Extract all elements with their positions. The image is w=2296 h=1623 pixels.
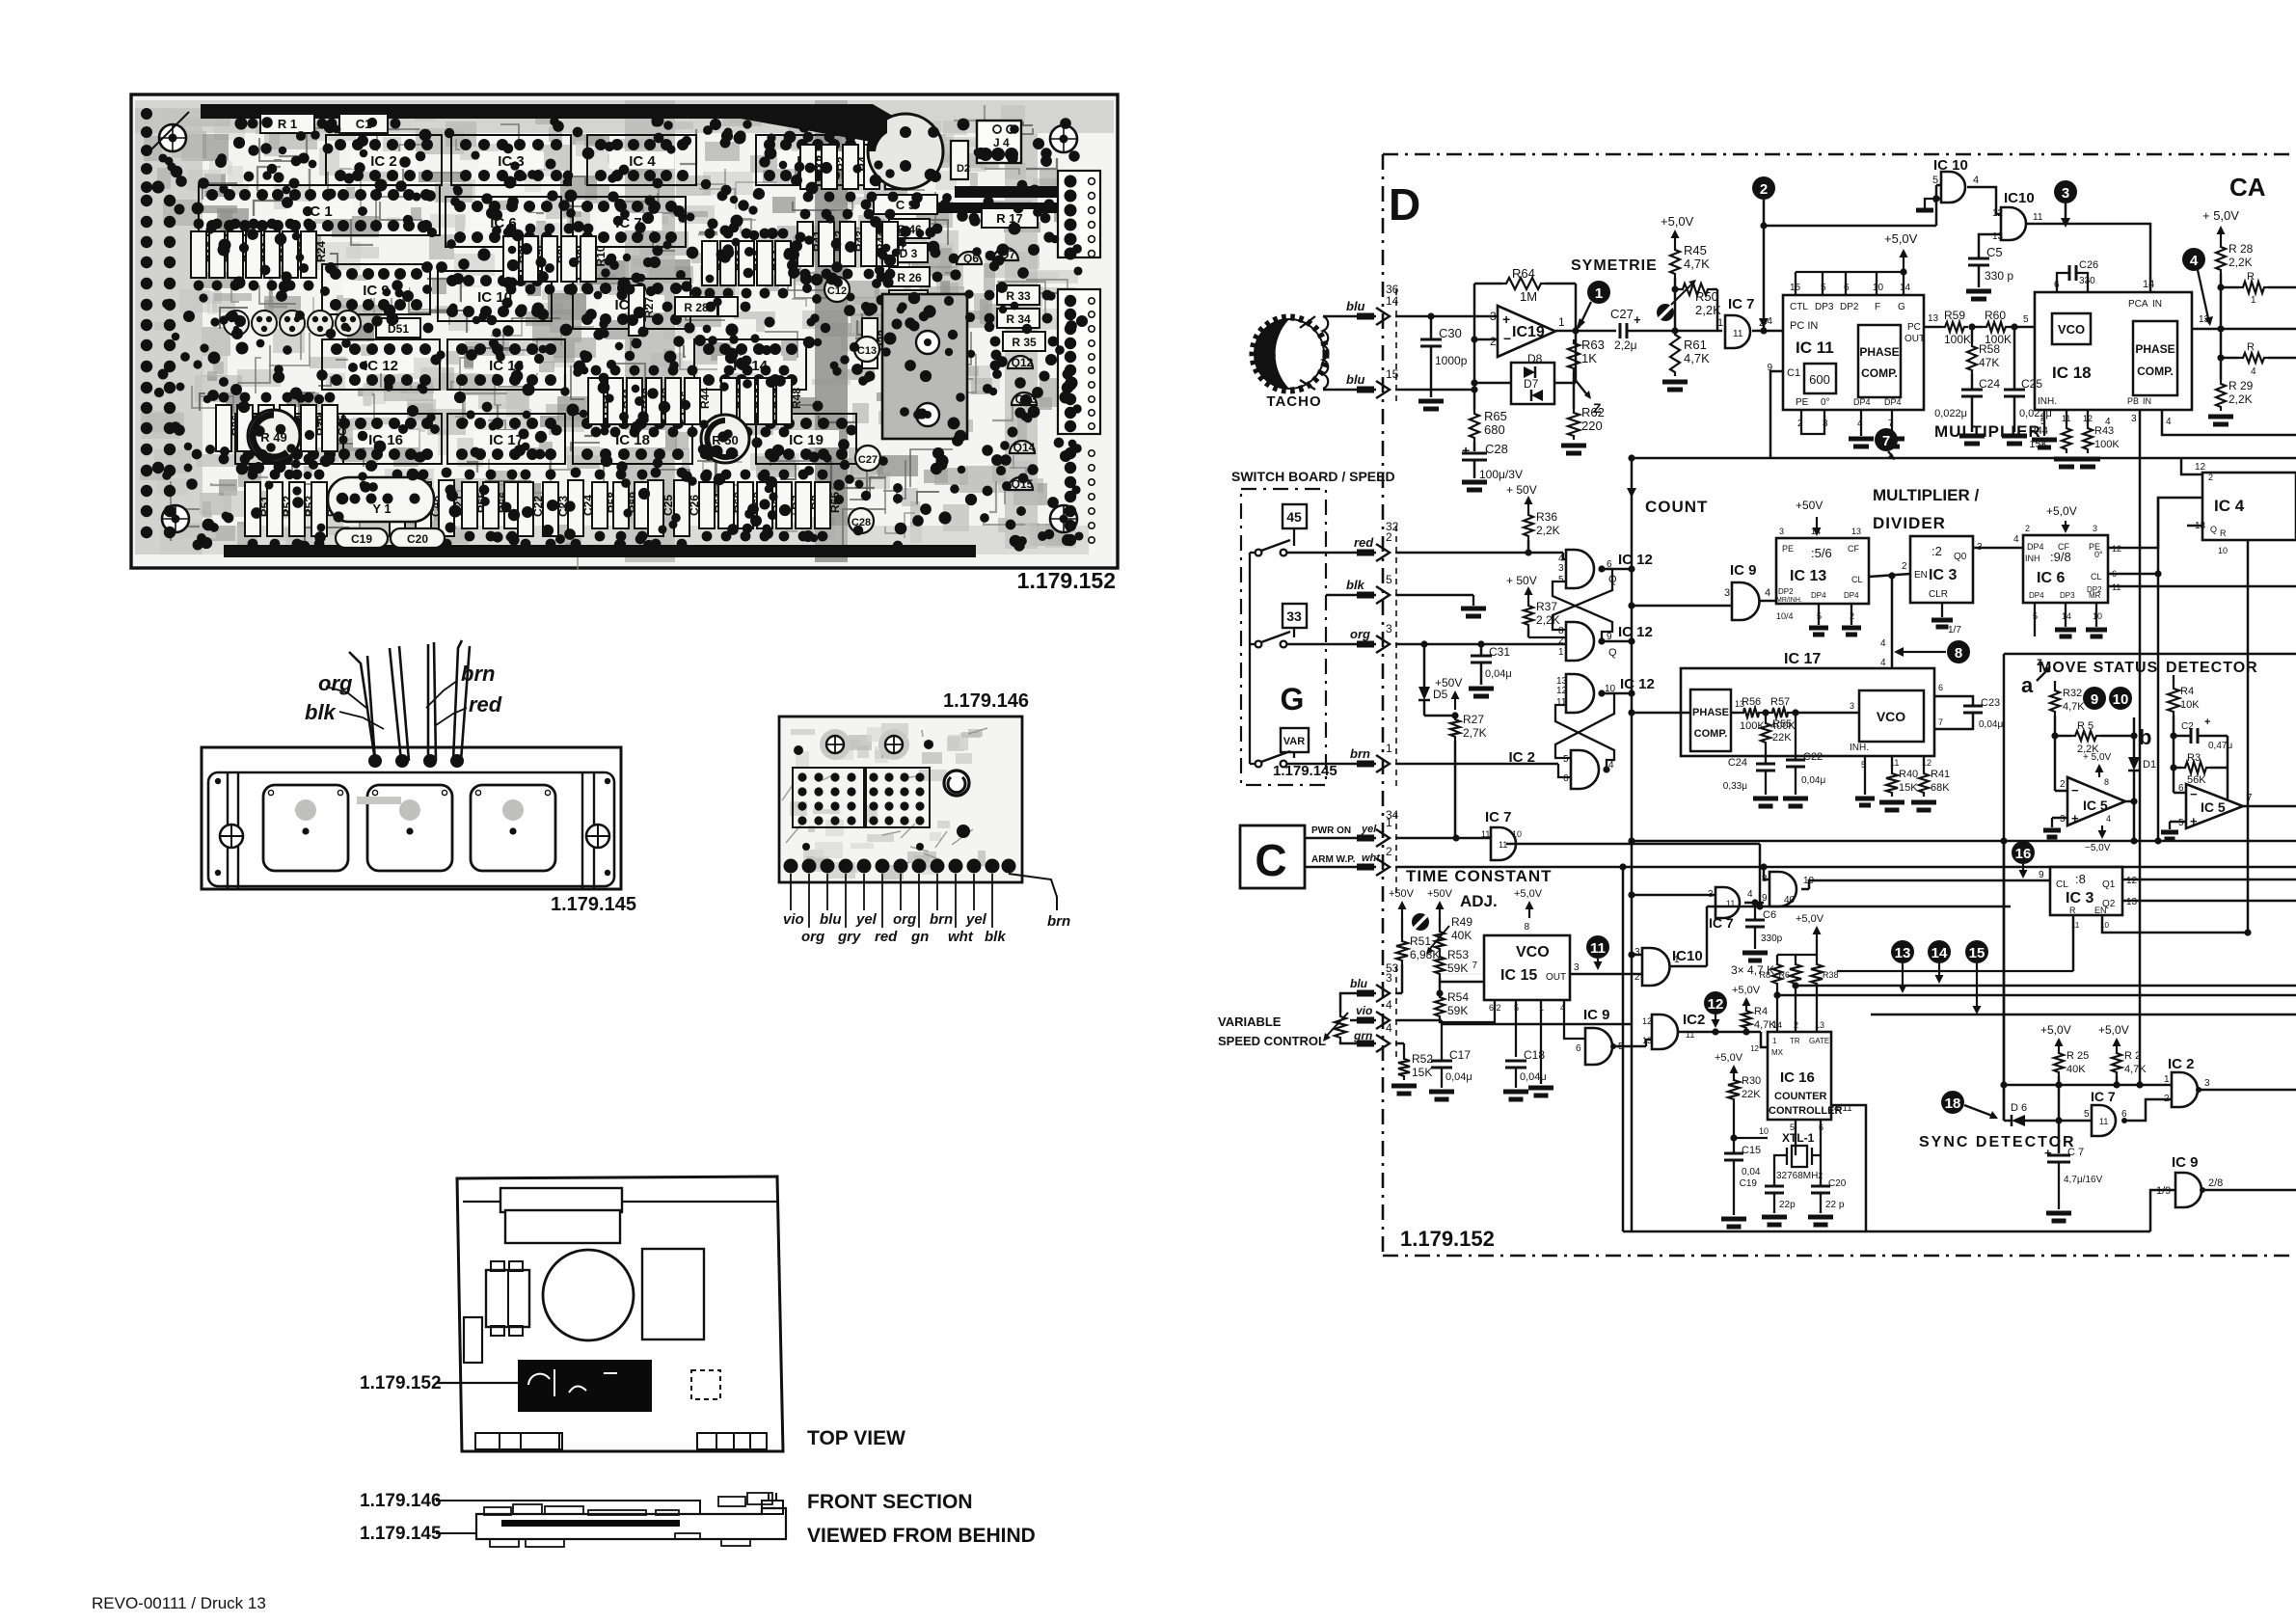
wire blk	[991, 874, 993, 928]
wire into IC17 left	[1632, 712, 1690, 715]
svg-text:600: 600	[1809, 372, 1830, 387]
svg-text:2: 2	[1558, 636, 1564, 646]
front section viewed from behind	[360, 1491, 1036, 1547]
component R51	[245, 482, 260, 536]
svg-text:+50V: +50V	[1427, 888, 1453, 900]
svg-text:R 35: R 35	[1012, 336, 1037, 349]
trimmer mark	[1657, 304, 1674, 321]
svg-text:R6: R6	[1778, 970, 1790, 980]
svg-text:DP3: DP3	[1815, 302, 1834, 312]
svg-text:5: 5	[2178, 818, 2184, 828]
component C23	[543, 482, 558, 536]
svg-text:2: 2	[1760, 181, 1768, 198]
svg-text:C5: C5	[1986, 245, 2003, 259]
capacitor C27	[1619, 323, 1622, 338]
R56 100K	[1731, 712, 1740, 715]
component R44	[685, 378, 700, 424]
svg-text:blk: blk	[1346, 578, 1365, 592]
resistor R65 680	[1473, 390, 1476, 410]
IC socket IC 9	[322, 264, 430, 314]
svg-text:PC IN: PC IN	[1790, 320, 1818, 332]
svg-text:VARIABLE: VARIABLE	[1218, 1014, 1282, 1029]
svg-text:+: +	[1502, 311, 1510, 327]
component R55	[462, 482, 477, 528]
svg-text:C20: C20	[407, 532, 428, 546]
component R4	[843, 145, 858, 189]
EN pin wire	[2102, 915, 2248, 933]
cross coupling IC12a/b	[1553, 569, 1612, 630]
svg-text:4: 4	[1973, 175, 1979, 186]
svg-text:1: 1	[1558, 315, 1565, 329]
IC6 DP4 pin5 down to bus	[2034, 603, 2036, 636]
dashed socket	[691, 1370, 720, 1399]
resistor to edge y298	[2221, 286, 2239, 289]
svg-text:R 5: R 5	[2077, 720, 2093, 732]
resistor R58 47K	[1971, 327, 1974, 342]
svg-text:IC 12: IC 12	[364, 358, 398, 374]
top view machine outline	[360, 1177, 905, 1451]
svg-text:PWR ON: PWR ON	[1311, 825, 1351, 836]
diode D1	[2133, 717, 2136, 757]
svg-text:3: 3	[2131, 414, 2137, 424]
MSD border	[2004, 653, 2296, 656]
svg-text:DP4: DP4	[1884, 397, 1902, 407]
component D 3	[889, 243, 928, 262]
svg-text:1: 1	[1717, 317, 1723, 329]
svg-text:C28: C28	[1485, 442, 1508, 456]
svg-text:4: 4	[2013, 534, 2019, 545]
svg-text:4,7K: 4,7K	[1684, 257, 1710, 271]
svg-text:12: 12	[2126, 876, 2138, 886]
C2 0,47u	[2174, 735, 2191, 738]
crystal Y1	[328, 477, 434, 522]
svg-text:R30: R30	[1742, 1075, 1761, 1087]
ground C30	[1418, 399, 1444, 404]
svg-text:R: R	[2247, 271, 2255, 283]
svg-text:1M: 1M	[1520, 289, 1537, 304]
component rect right	[642, 1249, 704, 1339]
+5V rail above IC11	[1795, 272, 1796, 295]
bottom pins wiring	[1440, 1000, 1495, 1022]
IC6 right wires	[2108, 498, 2202, 548]
component R 34	[997, 309, 1040, 328]
svg-text:5: 5	[2023, 314, 2029, 325]
svg-text:3: 3	[1386, 622, 1392, 636]
svg-text:68K: 68K	[1931, 782, 1950, 794]
resistor R43	[2087, 410, 2089, 424]
component R 35	[1003, 332, 1045, 351]
node 11	[1586, 935, 1609, 959]
svg-text:R53: R53	[1447, 948, 1469, 961]
svg-text:IC 9: IC 9	[2172, 1154, 2199, 1171]
svg-text:EN: EN	[2094, 906, 2107, 915]
svg-text:0,04μ: 0,04μ	[1520, 1071, 1547, 1083]
svg-text:R60: R60	[1985, 309, 2006, 322]
svg-text:DP4: DP4	[2027, 542, 2044, 552]
svg-text:ADJ.: ADJ.	[1460, 892, 1498, 910]
svg-text:10: 10	[1873, 283, 1884, 293]
svg-text:IC 15: IC 15	[1500, 967, 1537, 984]
svg-text:IC 11: IC 11	[1796, 338, 1834, 357]
capacitor C26 330p	[2057, 273, 2069, 292]
svg-text:3: 3	[1724, 587, 1730, 599]
component R21	[246, 231, 261, 278]
motor transformer	[486, 1270, 529, 1327]
C22 0,04u	[1795, 713, 1796, 760]
component R60	[635, 482, 650, 528]
svg-text:Q14: Q14	[1013, 441, 1036, 454]
R55 22K	[1765, 713, 1767, 719]
svg-text:22K: 22K	[1742, 1089, 1761, 1100]
svg-text:IC 9: IC 9	[1730, 562, 1757, 579]
svg-text:3: 3	[1574, 962, 1580, 973]
svg-text:VAR: VAR	[1283, 736, 1305, 747]
cross coupling IC12c/IC2d	[1555, 693, 1614, 758]
IC13 block	[1776, 538, 1869, 604]
wire org	[900, 874, 902, 910]
front panel assembly 1.179.145	[202, 640, 636, 915]
svg-text:C27: C27	[858, 454, 878, 466]
op-amp IC19	[1498, 306, 1555, 357]
svg-text:R 29: R 29	[2228, 379, 2254, 392]
IC socket IC 7	[573, 197, 686, 247]
svg-text:4,7K: 4,7K	[2063, 701, 2085, 713]
IC socket IC 3	[451, 135, 571, 185]
inner box vertical	[1622, 867, 1625, 1231]
IC socket IC 4	[587, 135, 696, 185]
big gate IC10d	[1769, 872, 1796, 906]
head block rects	[500, 1188, 622, 1212]
svg-text:3: 3	[2093, 524, 2097, 533]
connector wires blu vio grn	[1395, 992, 1402, 995]
wire pin13 to C5	[1979, 234, 2001, 258]
svg-text:11: 11	[2033, 212, 2043, 223]
component R37	[237, 405, 253, 451]
R3 56K	[2174, 767, 2181, 770]
svg-text:IC 7: IC 7	[1485, 809, 1512, 825]
svg-text:DP4: DP4	[1853, 397, 1871, 407]
svg-text:C24: C24	[1728, 757, 1747, 769]
svg-text:0,33μ: 0,33μ	[1723, 781, 1747, 792]
connector pin 4	[1357, 1041, 1374, 1047]
bus y1277	[1623, 1231, 2150, 1233]
svg-text:brn: brn	[1350, 746, 1370, 761]
svg-text:R37: R37	[1536, 600, 1557, 613]
svg-text:14: 14	[2143, 279, 2154, 290]
svg-text:R45: R45	[1684, 243, 1707, 257]
left edge notch	[464, 1317, 482, 1363]
transistor Q13	[1012, 392, 1037, 405]
trimmer R49 40K	[1412, 913, 1429, 931]
svg-text:IC2: IC2	[1683, 1012, 1705, 1028]
svg-text:R 26: R 26	[897, 271, 922, 284]
svg-text:8: 8	[1524, 922, 1529, 933]
svg-text:Q12: Q12	[1012, 356, 1034, 369]
svg-text:IC 5: IC 5	[2201, 799, 2226, 815]
component R63	[738, 482, 753, 528]
capacitor C15	[1733, 1138, 1735, 1153]
component R20	[228, 231, 243, 278]
svg-text:R 33: R 33	[1006, 289, 1031, 303]
C24b 0,33u	[1756, 763, 1775, 766]
connector pin 3	[1357, 990, 1374, 997]
capacitor C5 330p	[1968, 257, 1989, 260]
svg-text:3: 3	[1779, 527, 1784, 536]
svg-text:15: 15	[1969, 945, 1985, 961]
capacitor C19 22p	[1765, 1185, 1784, 1188]
ground R61	[1662, 380, 1688, 385]
svg-text:1.179.152: 1.179.152	[1400, 1227, 1495, 1251]
red line to IC12a	[1395, 552, 1563, 555]
svg-text:2: 2	[1902, 561, 1907, 572]
svg-text:−5,0V: −5,0V	[2085, 843, 2111, 853]
svg-text:2,2K: 2,2K	[2228, 256, 2253, 269]
svg-text:2,2K: 2,2K	[1536, 613, 1560, 627]
component R38	[258, 405, 274, 451]
svg-text:grn: grn	[1353, 1029, 1372, 1042]
svg-text:D 6: D 6	[2011, 1102, 2027, 1114]
screw right	[586, 825, 609, 848]
svg-text:R 28: R 28	[2228, 242, 2254, 256]
svg-text:10: 10	[2218, 546, 2228, 555]
svg-text:12: 12	[1642, 1016, 1652, 1026]
node 12	[1704, 991, 1727, 1014]
component R43	[646, 378, 662, 424]
svg-text:4,7K: 4,7K	[2124, 1064, 2147, 1075]
capacitor C27	[855, 446, 880, 471]
connector pin 2	[1357, 864, 1374, 871]
svg-text:3: 3	[1490, 310, 1497, 323]
svg-text:R: R	[2247, 341, 2255, 353]
svg-text:IC 3: IC 3	[1929, 567, 1957, 583]
numbered node 1	[1587, 281, 1610, 304]
svg-text:13: 13	[1851, 527, 1861, 536]
4/11 wire down	[1831, 1105, 1866, 1231]
svg-text:4: 4	[1880, 658, 1886, 668]
svg-text:4: 4	[1765, 587, 1770, 599]
svg-text:blu: blu	[1346, 372, 1365, 387]
wire brn	[936, 874, 938, 910]
svg-text:−: −	[1503, 331, 1511, 346]
svg-text:R4: R4	[1754, 1006, 1768, 1017]
svg-text:G: G	[1281, 682, 1305, 717]
svg-text:DP2: DP2	[1840, 302, 1859, 312]
wires to connector	[1286, 552, 1376, 555]
potentiometer R50	[701, 415, 749, 463]
component R27	[629, 285, 644, 336]
component R 26	[889, 267, 930, 286]
component R53	[289, 482, 305, 536]
wire gry	[845, 874, 847, 928]
svg-text:C18: C18	[1524, 1048, 1545, 1062]
svg-text:7: 7	[2247, 793, 2253, 803]
svg-text:4: 4	[2190, 253, 2199, 269]
svg-text:yel: yel	[1361, 824, 1377, 835]
svg-text:IC 7: IC 7	[1728, 296, 1755, 312]
wire gn	[918, 874, 920, 928]
svg-text:J 4: J 4	[993, 136, 1010, 149]
svg-text:GATE: GATE	[1809, 1037, 1829, 1045]
svg-text:+5,0V: +5,0V	[1715, 1052, 1743, 1064]
svg-text:VIEWED FROM BEHIND: VIEWED FROM BEHIND	[807, 1525, 1036, 1547]
capacitor C31	[1480, 644, 1483, 656]
svg-text:COMP.: COMP.	[1861, 366, 1898, 380]
wire IC10b out to IC18 pin14	[2027, 224, 2150, 292]
schematic region 1.179.152	[1253, 154, 2296, 1256]
node 3	[2054, 180, 2077, 203]
svg-text:680: 680	[1484, 422, 1505, 437]
node 4	[2182, 248, 2205, 271]
node 16	[2012, 841, 2035, 864]
resistor R32 4,7K	[2054, 681, 2056, 687]
component R 46	[889, 219, 930, 238]
svg-text:+5,0V: +5,0V	[1514, 888, 1543, 900]
svg-text:45: 45	[1286, 509, 1302, 525]
svg-text:+50V: +50V	[1435, 676, 1462, 690]
svg-text:3: 3	[2060, 814, 2066, 825]
vertical from IC10c area up	[1456, 762, 1458, 838]
R54 59K	[1435, 993, 1445, 1020]
pin4 wire to bus	[2162, 410, 2296, 435]
svg-text:yel: yel	[965, 911, 987, 928]
svg-text:9: 9	[2091, 691, 2098, 708]
VCO IC15 block	[1484, 935, 1570, 1000]
svg-text:CL: CL	[2091, 572, 2102, 582]
svg-text:MULTIPLIER /: MULTIPLIER /	[1873, 486, 1979, 504]
svg-text:14: 14	[1811, 527, 1821, 536]
svg-text:TACHO: TACHO	[1266, 393, 1321, 410]
svg-text:2: 2	[1386, 845, 1392, 858]
svg-text:Q: Q	[2210, 525, 2217, 534]
svg-text:3: 3	[1850, 701, 1854, 711]
svg-text:blu: blu	[1350, 977, 1368, 990]
power module heatsink	[882, 294, 967, 439]
wire vio	[790, 874, 792, 910]
component R45	[882, 222, 898, 266]
capstan flywheel circle	[543, 1250, 634, 1340]
gate IC12b	[1566, 622, 1594, 661]
grn wire to R52	[1395, 1042, 1404, 1045]
wire brn right	[1009, 874, 1057, 910]
resistor R63 1K	[1573, 331, 1575, 339]
svg-text:org: org	[893, 911, 916, 928]
svg-text:IC 6: IC 6	[2037, 570, 2065, 586]
svg-text:2: 2	[2060, 779, 2066, 790]
svg-text:R65: R65	[1484, 409, 1507, 423]
component D8	[796, 482, 811, 528]
svg-text:59K: 59K	[1447, 1004, 1468, 1017]
transistors Q1-Q5	[224, 311, 249, 336]
R57 400K	[1769, 708, 1792, 717]
svg-text:100K: 100K	[1944, 333, 1971, 346]
svg-text:1.179.146: 1.179.146	[943, 690, 1029, 712]
svg-text:+5,0V: +5,0V	[2046, 504, 2077, 518]
svg-text:R44: R44	[698, 388, 712, 409]
svg-text:18: 18	[1945, 1096, 1961, 1112]
svg-text:0,022μ: 0,022μ	[1934, 408, 1967, 419]
svg-text:6: 6	[1938, 683, 1943, 692]
wire y1125 to IC2c	[2004, 1084, 2172, 1087]
svg-text:11: 11	[1499, 840, 1507, 850]
resistor R60 100K	[1972, 326, 1983, 329]
svg-text:11: 11	[1556, 697, 1567, 708]
IC6 grounds	[2065, 603, 2066, 627]
diode D2	[951, 141, 968, 179]
component R42	[819, 222, 834, 266]
component R48	[776, 378, 792, 424]
IC socket IC 19	[756, 414, 856, 464]
resistor R6	[1795, 955, 1796, 960]
svg-text:IC 9: IC 9	[1583, 1007, 1610, 1023]
svg-text:R62: R62	[1581, 405, 1605, 419]
svg-text:IC 12: IC 12	[1620, 676, 1655, 692]
node 8	[1947, 640, 1970, 663]
svg-text:wht: wht	[948, 929, 974, 945]
svg-text:IC19: IC19	[1512, 324, 1545, 340]
ground R62	[1561, 444, 1586, 448]
IC socket IC 13	[447, 339, 565, 390]
brn line	[1395, 763, 1558, 766]
svg-text:100μ/3V: 100μ/3V	[1479, 468, 1523, 481]
svg-text:+ 5,0V: + 5,0V	[2083, 752, 2112, 763]
svg-text:8: 8	[1955, 645, 1962, 662]
svg-text:blk: blk	[305, 700, 338, 724]
switch 45	[1283, 504, 1307, 528]
svg-text:330p: 330p	[1761, 933, 1783, 944]
component R45	[721, 378, 737, 424]
R pin down to wire	[2072, 915, 2075, 971]
svg-text:brn: brn	[930, 911, 953, 928]
svg-text:40K: 40K	[1451, 929, 1472, 942]
svg-text:vio: vio	[1356, 1004, 1372, 1017]
svg-text:330: 330	[2079, 276, 2095, 286]
svg-text:brn: brn	[461, 662, 495, 686]
svg-text:+ 50V: + 50V	[1506, 574, 1537, 587]
svg-text:14: 14	[1900, 283, 1911, 293]
component R24	[301, 231, 316, 278]
svg-text:C24: C24	[1979, 377, 2000, 391]
wires to panel (org blk brn red)	[349, 652, 375, 761]
svg-text:+: +	[1462, 443, 1470, 458]
component D 4	[889, 290, 928, 310]
svg-text:3: 3	[2062, 185, 2069, 202]
svg-text:3: 3	[1558, 563, 1564, 574]
transistor Q15	[1008, 477, 1033, 490]
svg-text:org: org	[1350, 627, 1370, 641]
resistor R8	[1776, 955, 1778, 960]
component D1	[864, 145, 879, 189]
svg-text:5: 5	[1563, 754, 1569, 765]
component	[718, 297, 738, 316]
connector pin 14	[1357, 313, 1374, 320]
svg-text:VCO: VCO	[1516, 944, 1550, 960]
capacitor C28	[1473, 442, 1476, 451]
component R18	[191, 231, 206, 278]
component C21	[439, 480, 454, 536]
svg-text:2: 2	[2208, 473, 2213, 482]
svg-text:6: 6	[1563, 773, 1569, 784]
svg-text:1: 1	[2164, 1074, 2170, 1085]
transistor Q7	[993, 248, 1018, 260]
svg-text:IC 18: IC 18	[2052, 364, 2092, 382]
component R13	[739, 241, 754, 285]
capacitor C28	[849, 508, 874, 533]
wire IC7a out to IC11	[1752, 330, 1783, 333]
component R8	[542, 236, 557, 282]
resistor R44	[2066, 410, 2067, 424]
svg-text:COMP.: COMP.	[2137, 365, 2174, 378]
svg-text:IC 2: IC 2	[2168, 1056, 2195, 1072]
